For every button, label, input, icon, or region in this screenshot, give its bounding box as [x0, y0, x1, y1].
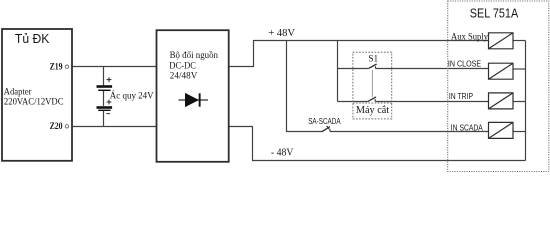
svg-text:IN TRIP: IN TRIP — [449, 92, 474, 101]
svg-text:Z20: Z20 — [50, 122, 63, 132]
svg-text:Tủ ĐK: Tủ ĐK — [15, 31, 50, 46]
svg-text:220VAC/12VDC: 220VAC/12VDC — [4, 97, 64, 107]
svg-text:S1: S1 — [368, 54, 378, 64]
svg-text:- 48V: - 48V — [271, 147, 294, 159]
svg-text:Adapter: Adapter — [4, 87, 32, 97]
svg-text:IN SCADA: IN SCADA — [451, 123, 483, 132]
svg-text:SEL 751A: SEL 751A — [470, 7, 519, 21]
svg-text:Z19: Z19 — [50, 63, 63, 73]
svg-text:Aux Suply: Aux Suply — [451, 32, 488, 42]
svg-text:Máy cắt: Máy cắt — [356, 105, 390, 116]
svg-text:SA-SCADA: SA-SCADA — [308, 117, 341, 126]
svg-text:+ 48V: + 48V — [268, 27, 295, 39]
svg-text:24/48V: 24/48V — [170, 70, 198, 81]
svg-text:Ác quy 24V: Ác quy 24V — [110, 91, 154, 101]
svg-text:IN CLOSE: IN CLOSE — [448, 60, 482, 69]
